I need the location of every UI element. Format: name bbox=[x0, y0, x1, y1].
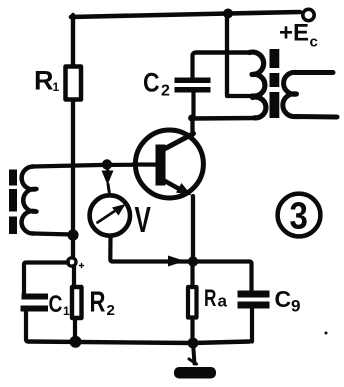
transistor Q1 base wire inside bbox=[133, 162, 156, 166]
node ring junction at C1/R2 bbox=[68, 258, 76, 266]
node emitter rail junction bbox=[188, 256, 198, 266]
svg-text:V: V bbox=[135, 199, 152, 240]
node junction on supply rail bbox=[223, 9, 233, 19]
wire emitter down to rail bbox=[191, 196, 195, 262]
transformer core (dashed bar) bbox=[270, 49, 280, 118]
speck plus mark near ring junction bbox=[80, 264, 84, 268]
wire bottom ground rail bbox=[28, 342, 250, 344]
svg-text:R: R bbox=[90, 287, 106, 319]
transformer T primary winding bbox=[250, 52, 266, 118]
wire C1 bottom lead bbox=[26, 312, 28, 342]
wire supply tap vertical bbox=[227, 14, 253, 96]
svg-text:R: R bbox=[204, 285, 216, 312]
wire R1 bottom lead / left vertical bbox=[71, 101, 75, 258]
wire tank bottom to collector bbox=[193, 116, 256, 121]
node coil bottom junction bbox=[67, 229, 78, 240]
svg-text:1: 1 bbox=[53, 80, 60, 94]
label R1 bbox=[34, 66, 60, 96]
svg-text:C: C bbox=[143, 68, 160, 98]
wire R2 bottom lead bbox=[73, 318, 77, 342]
label circled 3 bbox=[278, 194, 321, 237]
wire from ring junction left to C1 bbox=[24, 263, 68, 294]
transformer T secondary winding bbox=[283, 72, 337, 117]
svg-text:3: 3 bbox=[290, 194, 308, 237]
resistor R1 bbox=[66, 67, 82, 100]
svg-text:2: 2 bbox=[161, 83, 170, 100]
arrow on emitter rail wire bbox=[168, 256, 185, 267]
meter V top lead with down arrow bbox=[102, 165, 114, 194]
wire C3 bottom lead bbox=[250, 309, 254, 342]
wire meter bottom lead to emitter rail bbox=[110, 238, 193, 262]
label C3 bbox=[275, 286, 301, 316]
wire tank top bbox=[196, 50, 250, 54]
svg-text:C: C bbox=[275, 286, 292, 312]
inductor L feedback coil bbox=[22, 167, 37, 234]
resistor R3 bbox=[188, 287, 197, 318]
wire coil bottom to left vertical bbox=[33, 234, 73, 235]
svg-text:c: c bbox=[310, 34, 318, 51]
label C2 bbox=[143, 68, 170, 100]
speck dot right side bbox=[325, 332, 328, 335]
wire R2 top lead bbox=[72, 266, 76, 287]
svg-text:+E: +E bbox=[279, 20, 309, 47]
svg-text:C: C bbox=[49, 290, 63, 318]
resistor R2 bbox=[72, 287, 82, 318]
wire R1 top lead bbox=[71, 15, 75, 66]
terminal +Ec open circle bbox=[303, 9, 314, 20]
label V bbox=[135, 199, 152, 240]
label C1 bbox=[49, 290, 71, 318]
wire C2 bottom lead bbox=[191, 92, 195, 119]
capacitor C2 bbox=[175, 78, 211, 93]
wire emitter rail to C3 branch bbox=[193, 262, 252, 291]
capacitor C3 bbox=[238, 291, 270, 309]
ground bbox=[174, 343, 216, 379]
svg-text:1: 1 bbox=[63, 304, 70, 318]
wire C2 top lead to tank top bbox=[193, 53, 197, 79]
node R3 bottom junction bbox=[188, 338, 199, 349]
svg-text:9: 9 bbox=[291, 297, 300, 316]
transistor Q1 circle bbox=[135, 130, 203, 198]
svg-text:a: a bbox=[218, 292, 228, 311]
svg-text:R: R bbox=[34, 66, 54, 96]
wire base wire from coil to transistor bbox=[32, 165, 156, 167]
capacitor C1 bbox=[21, 294, 49, 312]
wire top supply rail bbox=[71, 12, 300, 17]
meter V needle bbox=[98, 204, 126, 223]
svg-text:2: 2 bbox=[107, 302, 115, 319]
node R2 bottom junction bbox=[70, 336, 82, 348]
wire R3 top lead bbox=[190, 262, 194, 287]
wire collector up to tank bbox=[190, 117, 194, 135]
wire R3 bottom lead bbox=[190, 318, 194, 343]
node base junction bbox=[102, 159, 112, 169]
core of feedback coil (dashed bar) bbox=[9, 170, 17, 235]
label R2 bbox=[90, 287, 115, 319]
label R3 bbox=[204, 285, 228, 312]
label +Ec bbox=[279, 20, 318, 51]
transistor Q1 collector line bbox=[161, 134, 194, 152]
transistor Q1 emitter line with arrow bbox=[161, 179, 192, 196]
transistor Q1 base bar bbox=[156, 145, 166, 186]
meter V circle bbox=[90, 195, 130, 235]
node collector tank corner bbox=[188, 115, 195, 122]
